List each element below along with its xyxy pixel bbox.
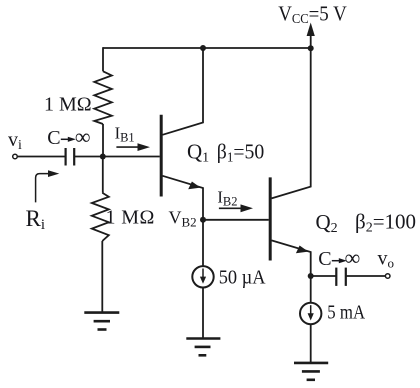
current source I2 5mA	[300, 303, 321, 324]
svg-text:∞: ∞	[75, 124, 91, 149]
arrow: Ri input-resistance pointer	[36, 174, 49, 203]
svg-text:C: C	[47, 127, 60, 149]
transistor Q1 collector lead	[163, 48, 204, 135]
wire: output node down to 5mA source	[310, 276, 312, 303]
svg-text:β1=50: β1=50	[217, 141, 264, 164]
wire: 5mA source to ground	[310, 324, 312, 363]
capacitor C1 (input coupling, C to infinity)	[66, 148, 75, 166]
resistor R1 1 MOhm (upper bias resistor)	[94, 71, 112, 124]
transistor Q2 base bar	[269, 177, 272, 260]
terminal: vo output circle	[385, 274, 390, 279]
label: C to infinity (output)	[318, 245, 360, 270]
wire: capacitor C2 to vo terminal	[346, 275, 385, 277]
svg-text:1 MΩ: 1 MΩ	[106, 207, 155, 229]
wire: R2 bottom to ground	[101, 241, 103, 313]
wire: rail corner down to R1 top	[102, 47, 104, 71]
transistor Q1 emitter lead with arrow	[163, 176, 204, 220]
wire: VB2 node to Q2 base	[203, 219, 269, 221]
node: rail junction to Q1 collector	[200, 45, 206, 51]
wire: input node down to R2 top	[102, 157, 104, 193]
svg-text:VCC=5 V: VCC=5 V	[278, 2, 347, 26]
node: output node junction dot	[308, 273, 314, 279]
svg-text:C: C	[318, 248, 331, 270]
ground: below 50uA source	[186, 339, 220, 356]
transistor Q1 base bar	[160, 115, 163, 197]
svg-text:∞: ∞	[345, 245, 361, 270]
wire: vi to capacitor C1	[18, 156, 66, 158]
wire: top VCC rail	[103, 47, 311, 49]
label: C to infinity (input)	[47, 124, 90, 149]
transistor Q2 emitter lead with arrow	[272, 240, 311, 276]
power symbol: VCC arrow	[307, 23, 315, 49]
node: VB2 junction dot	[200, 217, 206, 223]
transistor Q2 collector lead	[272, 48, 311, 198]
wire: output node to capacitor C2	[311, 275, 336, 277]
terminal: vi input circle	[13, 154, 18, 159]
node: rail junction at VCC arrow	[308, 45, 314, 51]
wire: input node to Q1 base	[103, 156, 160, 158]
wire: R1 bottom to input node	[102, 124, 104, 157]
capacitor C2 (output coupling, C to infinity)	[336, 268, 346, 286]
arrow: IB1 current direction	[116, 146, 139, 148]
ground: below R2	[84, 313, 119, 330]
node: input node junction dot	[100, 154, 106, 160]
ground: below 5mA source	[294, 363, 328, 380]
current source I1 50uA	[192, 266, 213, 287]
svg-text:1 MΩ: 1 MΩ	[44, 93, 92, 115]
arrow: IB2 current direction	[219, 207, 242, 209]
wire: 50uA source to ground	[202, 288, 204, 339]
wire: capacitor C1 to input node	[74, 156, 103, 158]
svg-text:50 µA: 50 µA	[219, 267, 266, 289]
svg-text:5 mA: 5 mA	[327, 301, 365, 323]
svg-text:β2=100: β2=100	[355, 210, 416, 236]
wire: VB2 node down to 50uA source	[202, 220, 204, 266]
resistor R2 1 MOhm (lower bias resistor)	[92, 193, 109, 241]
